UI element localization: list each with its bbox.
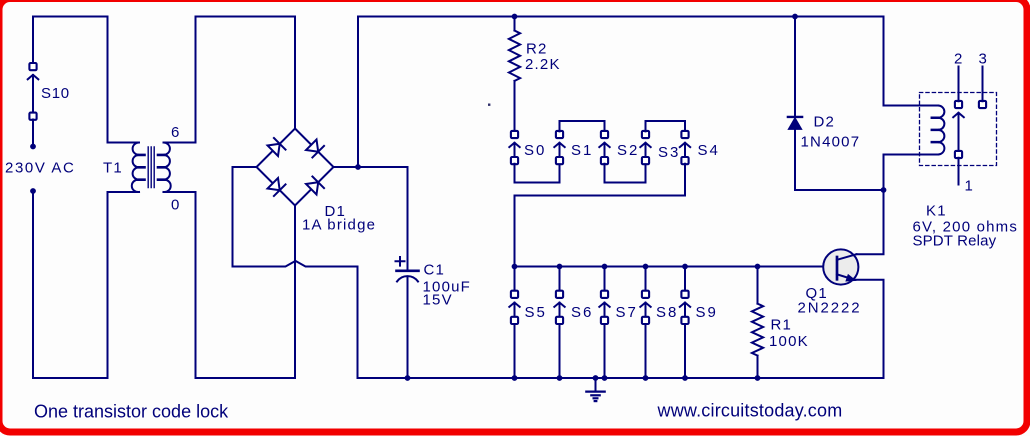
wire: bottom bus: [358, 377, 884, 379]
wire: collector to relay node: [857, 190, 884, 254]
svg-text:S8: S8: [656, 304, 678, 321]
svg-text:6: 6: [171, 124, 179, 141]
diode D1b (top-right): [305, 139, 324, 158]
svg-text:1N4007: 1N4007: [801, 134, 861, 151]
diode D1d (bottom-right): [305, 176, 324, 195]
node: AC input terminal (bottom): [30, 188, 36, 194]
wire: emitter to bottom bus: [852, 280, 884, 378]
svg-text:100K: 100K: [769, 333, 809, 350]
svg-text:SPDT Relay: SPDT Relay: [913, 232, 997, 249]
svg-text:0: 0: [171, 197, 179, 214]
wire: top bus segment to bridge: [196, 16, 296, 18]
node: junction ground: [593, 375, 599, 381]
capacitor C1: [396, 257, 419, 378]
wire: S1 to S2: [560, 121, 605, 131]
switch S8 with leads: [640, 267, 650, 379]
switch S1: [554, 131, 564, 164]
svg-text:2: 2: [954, 51, 962, 68]
svg-text:www.circuitstoday.com: www.circuitstoday.com: [657, 401, 843, 421]
node: junction bottom S9: [682, 375, 688, 381]
node: junction R1 top: [755, 264, 761, 270]
node: junction S5: [512, 264, 518, 270]
svg-text:S9: S9: [696, 304, 718, 321]
wire: S10 to AC terminal: [32, 120, 34, 147]
diode D1a (top-left): [267, 138, 286, 157]
node: junction S6: [557, 264, 563, 270]
transistor Q1: [823, 249, 858, 284]
switch S9 with leads: [680, 267, 690, 379]
svg-text:R1: R1: [771, 317, 793, 334]
node: junction C1 bottom: [405, 375, 411, 381]
wire: bridge left vertex loop with hop over riser: [233, 167, 358, 378]
svg-text:S3: S3: [658, 144, 680, 161]
svg-text:S1: S1: [571, 142, 593, 159]
svg-text:S10: S10: [41, 85, 70, 102]
svg-text:S7: S7: [616, 304, 638, 321]
node: junction bottom S5: [512, 375, 518, 381]
svg-text:C1: C1: [424, 262, 446, 279]
svg-text:S4: S4: [698, 142, 720, 159]
wire: left column down to S10: [32, 17, 34, 64]
wire: relay supply riser: [884, 17, 939, 106]
wire: bridge bottom riser: [294, 206, 296, 379]
resistor R1: [752, 267, 763, 379]
svg-text:S6: S6: [571, 304, 593, 321]
node: junction top bus / R2: [512, 14, 518, 20]
wire: bridge right vertex to C1 top: [334, 167, 408, 270]
svg-text:S5: S5: [525, 304, 547, 321]
wire: source loop top: [33, 16, 108, 18]
svg-text:1: 1: [965, 178, 973, 195]
diode D2: [788, 17, 884, 191]
svg-text:D2: D2: [814, 114, 836, 131]
relay K1: [884, 67, 997, 191]
switch S10: [28, 63, 39, 120]
node: junction bottom S8: [643, 375, 649, 381]
switch S2: [599, 131, 609, 164]
svg-text:1A bridge: 1A bridge: [302, 217, 376, 234]
wire: main top bus: [358, 16, 884, 18]
svg-text:T1: T1: [103, 159, 123, 176]
switch S3: [640, 131, 650, 164]
wire: secondary bottom drop: [195, 192, 197, 378]
svg-text:S2: S2: [617, 142, 639, 159]
node: junction S9: [682, 264, 688, 270]
node: junction S8: [643, 264, 649, 270]
wire: bottom segment under transformer: [196, 377, 296, 379]
wire: riser into bridge top: [294, 17, 296, 129]
switch S6 with leads: [554, 267, 564, 379]
svg-text:230V AC: 230V AC: [5, 159, 75, 176]
wire: S2 to S3: [605, 164, 646, 183]
node: AC input terminal (top): [30, 144, 36, 150]
wire: base lead: [758, 266, 825, 268]
wire: S4 return to middle bus: [515, 164, 686, 267]
wire: S0 to S1: [515, 164, 560, 183]
node: junction collector / relay: [881, 187, 887, 193]
node: junction R1 bottom: [755, 375, 761, 381]
svg-text:2N2222: 2N2222: [798, 300, 862, 317]
node: junction at bridge output: [355, 164, 361, 170]
wire: DC+ riser to top bus: [357, 17, 359, 168]
wire: bottom left segment: [33, 377, 108, 379]
switch S7 with leads: [599, 267, 609, 379]
wire: secondary top riser: [195, 17, 197, 143]
wire: S3 to S4: [646, 121, 686, 131]
diode D1c (bottom-left): [267, 177, 286, 196]
transformer T1: [108, 143, 196, 193]
resistor R2: [509, 17, 520, 132]
wire: middle bus: [515, 266, 824, 268]
svg-text:2.2K: 2.2K: [525, 56, 561, 73]
node: junction top bus / D2: [792, 14, 798, 20]
svg-text:One transistor code lock: One transistor code lock: [34, 402, 229, 422]
wire: top bus down to primary top: [107, 17, 109, 143]
node: junction bottom S6: [557, 375, 563, 381]
wire: riser to primary bottom: [107, 192, 109, 378]
svg-text:15V: 15V: [423, 292, 453, 309]
stray mark: [488, 104, 490, 106]
ground: [586, 378, 604, 401]
switch S5 with leads: [509, 267, 519, 379]
switch S0: [509, 131, 519, 164]
bridge rectifier D1 diamond: [257, 129, 334, 206]
svg-text:3: 3: [979, 51, 987, 68]
wire: AC bottom terminal down: [32, 191, 34, 378]
switch S4: [680, 131, 690, 164]
svg-text:K1: K1: [926, 203, 947, 220]
svg-text:S0: S0: [524, 142, 546, 159]
node: junction bottom S7: [602, 375, 608, 381]
node: junction S7: [602, 264, 608, 270]
